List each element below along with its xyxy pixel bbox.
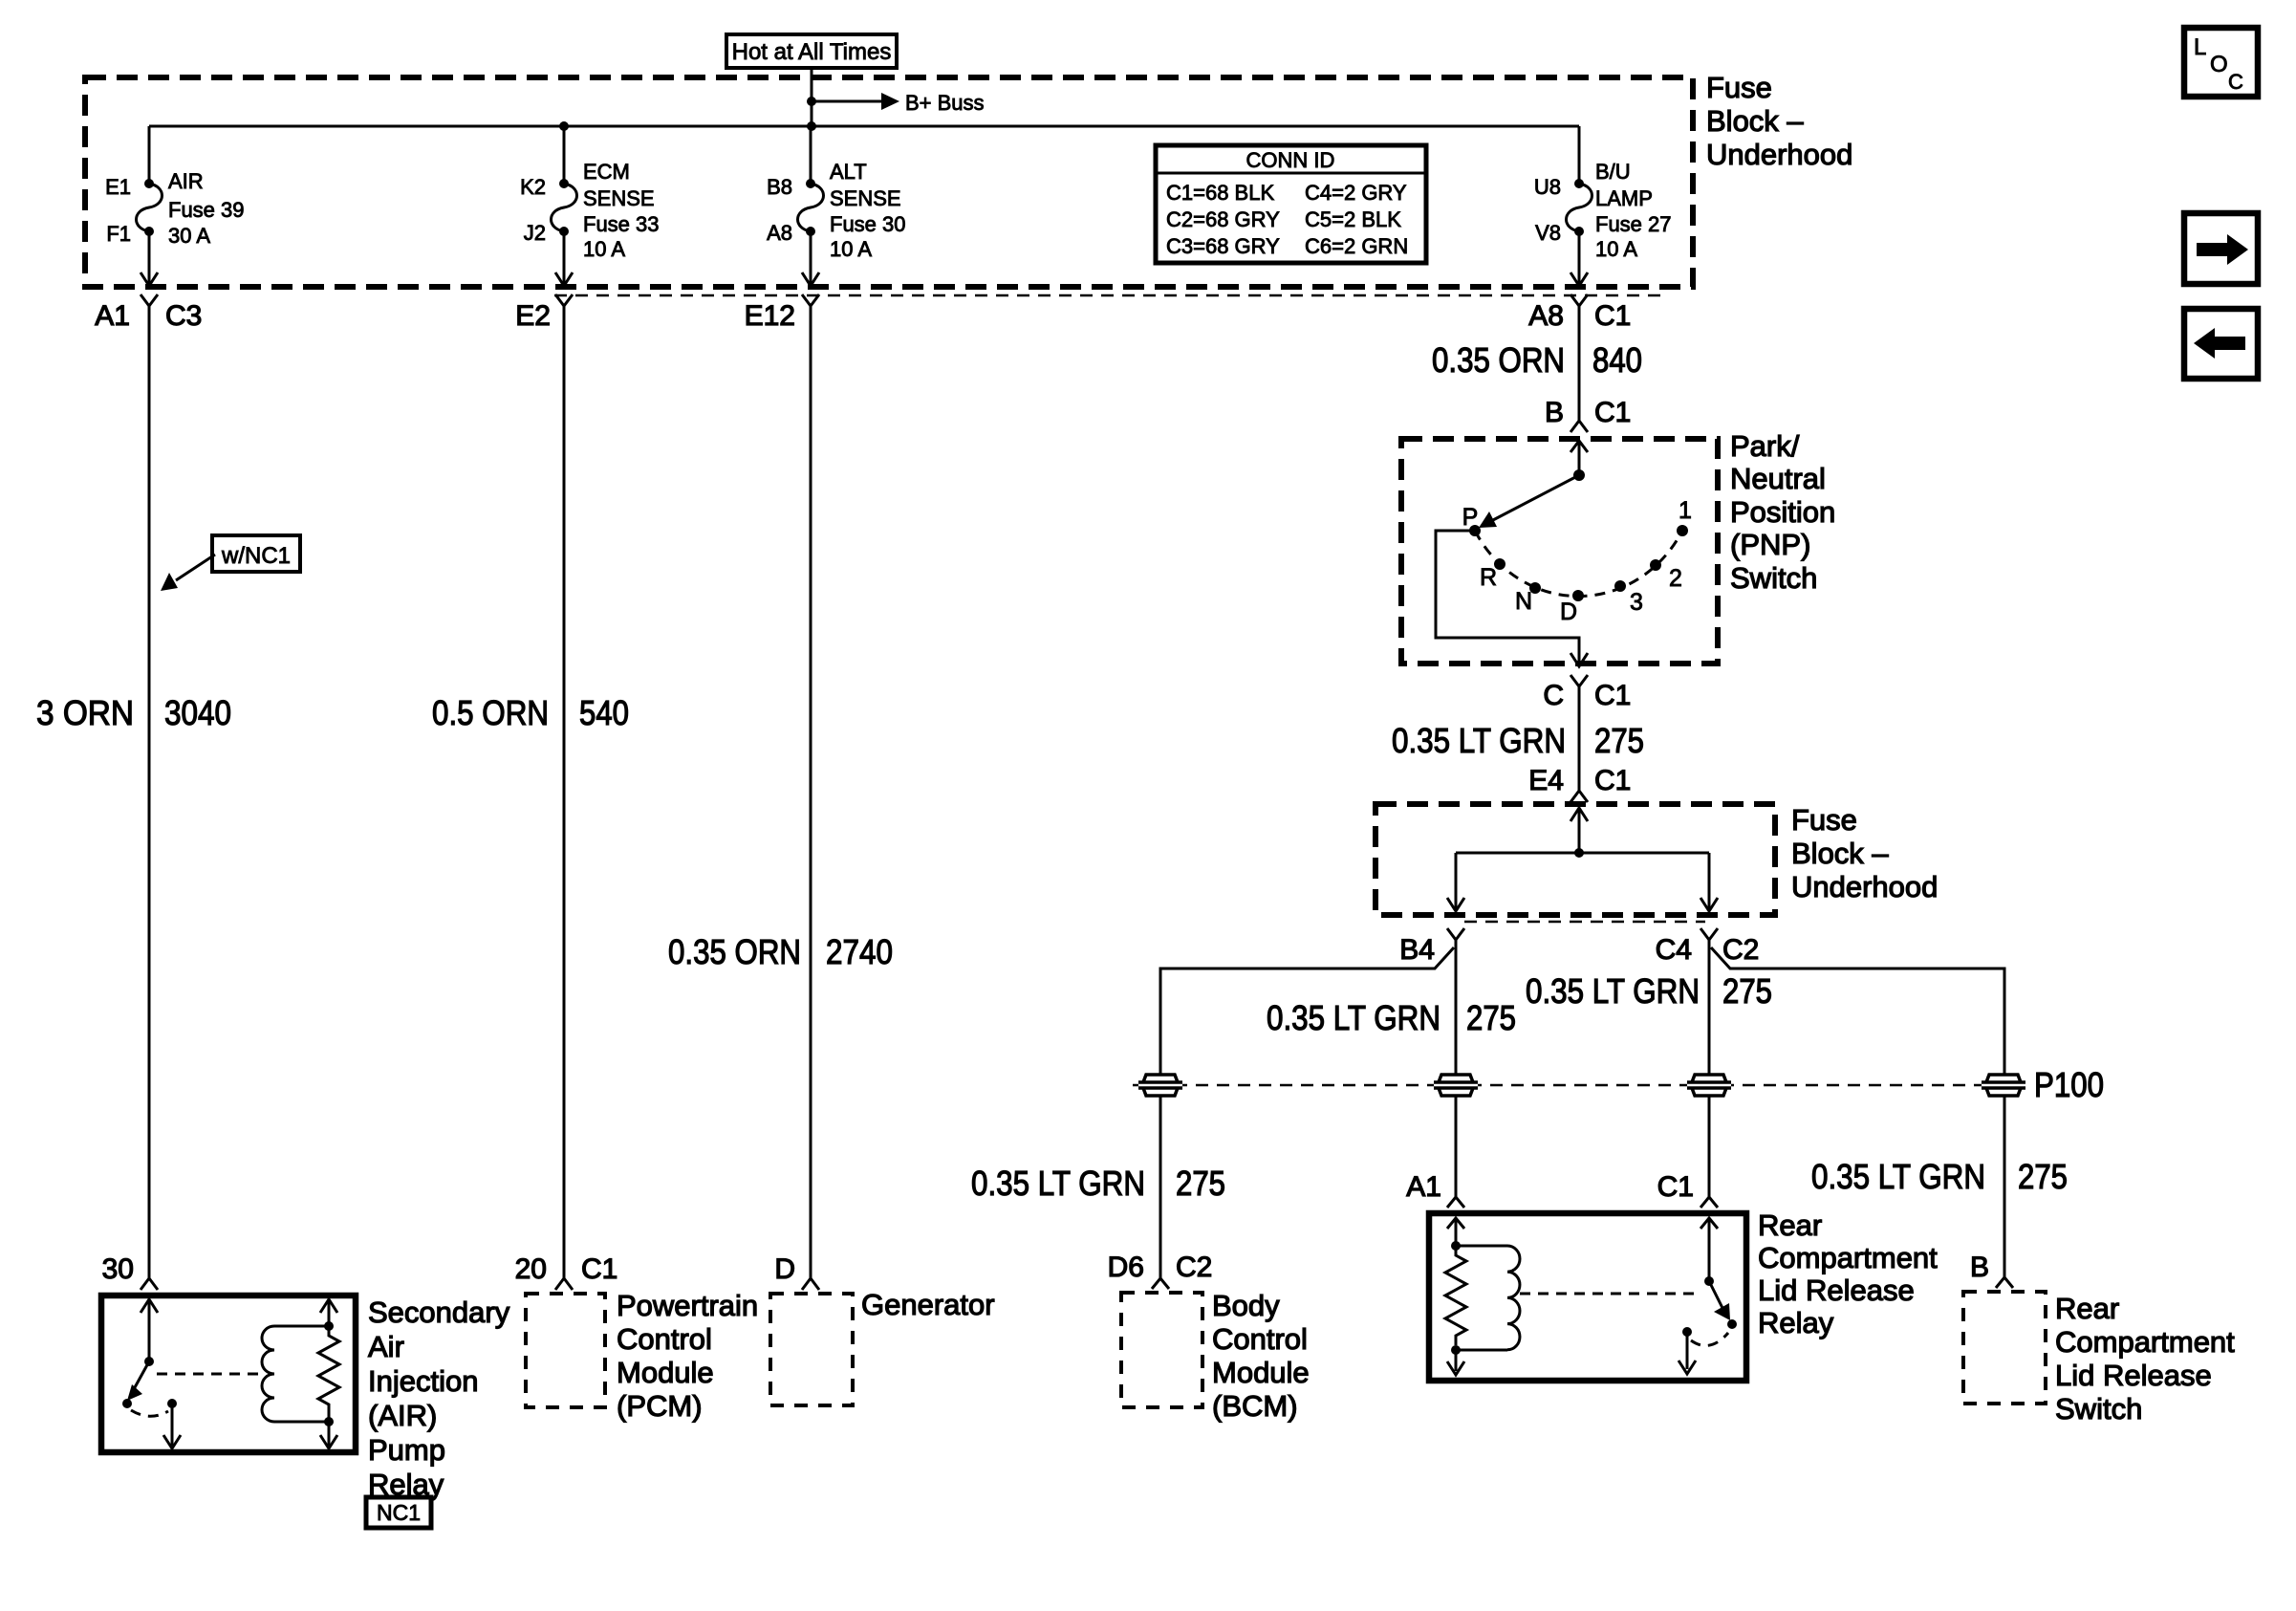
svg-text:(PNP): (PNP) <box>1730 528 1810 561</box>
svg-text:B+ Buss: B+ Buss <box>905 91 985 115</box>
svg-text:Hot at All Times: Hot at All Times <box>732 39 892 65</box>
svg-text:E1: E1 <box>105 175 131 199</box>
svg-text:Rear: Rear <box>1758 1208 1822 1242</box>
svg-text:K2: K2 <box>520 175 546 199</box>
svg-text:3: 3 <box>1630 589 1643 616</box>
svg-text:C1: C1 <box>581 1253 617 1285</box>
svg-text:A8: A8 <box>767 221 792 245</box>
svg-text:C4: C4 <box>1656 934 1692 966</box>
svg-text:3 ORN: 3 ORN <box>36 693 134 732</box>
svg-text:V8: V8 <box>1535 221 1561 245</box>
svg-text:2: 2 <box>1669 565 1682 592</box>
svg-text:1: 1 <box>1679 497 1692 524</box>
svg-text:Block –: Block – <box>1791 837 1889 870</box>
svg-text:Generator: Generator <box>861 1288 995 1321</box>
svg-text:A1: A1 <box>95 300 130 332</box>
svg-text:LAMP: LAMP <box>1595 186 1653 210</box>
svg-text:Lid Release: Lid Release <box>1758 1274 1915 1307</box>
svg-text:D: D <box>774 1253 795 1285</box>
svg-text:Secondary: Secondary <box>368 1295 510 1329</box>
svg-text:w/NC1: w/NC1 <box>221 543 291 569</box>
svg-text:Powertrain: Powertrain <box>617 1289 758 1322</box>
svg-text:B/U: B/U <box>1595 160 1631 184</box>
svg-text:0.5 ORN: 0.5 ORN <box>432 693 549 732</box>
svg-text:(AIR): (AIR) <box>368 1399 437 1432</box>
svg-text:J2: J2 <box>524 221 546 245</box>
svg-text:30 A: 30 A <box>168 224 210 248</box>
svg-text:C3: C3 <box>165 300 202 332</box>
svg-text:D6: D6 <box>1108 1252 1144 1283</box>
svg-text:CONN ID: CONN ID <box>1246 148 1335 172</box>
svg-text:10 A: 10 A <box>1595 237 1637 261</box>
svg-text:Fuse 33: Fuse 33 <box>583 212 660 236</box>
svg-text:Rear: Rear <box>2055 1292 2119 1325</box>
svg-text:NC1: NC1 <box>377 1500 421 1525</box>
svg-text:C: C <box>1543 680 1564 711</box>
svg-text:E12: E12 <box>745 300 795 332</box>
svg-text:275: 275 <box>2018 1157 2068 1196</box>
svg-text:ALT: ALT <box>830 160 867 184</box>
svg-text:N: N <box>1515 588 1532 615</box>
svg-text:(BCM): (BCM) <box>1212 1389 1298 1423</box>
svg-text:275: 275 <box>1722 971 1772 1011</box>
svg-text:10 A: 10 A <box>830 237 872 261</box>
svg-text:2740: 2740 <box>826 932 893 971</box>
svg-text:Body: Body <box>1212 1289 1280 1322</box>
svg-text:(PCM): (PCM) <box>617 1389 703 1423</box>
svg-text:Underhood: Underhood <box>1706 138 1852 171</box>
svg-text:0.35 LT GRN: 0.35 LT GRN <box>971 1164 1145 1203</box>
svg-text:C1: C1 <box>1594 680 1631 711</box>
svg-text:L: L <box>2194 34 2206 60</box>
svg-text:Fuse: Fuse <box>1706 71 1772 104</box>
svg-text:540: 540 <box>579 693 629 732</box>
svg-text:0.35 LT GRN: 0.35 LT GRN <box>1392 721 1566 760</box>
svg-text:Park/: Park/ <box>1730 429 1800 463</box>
svg-text:Switch: Switch <box>2055 1392 2142 1426</box>
svg-text:Switch: Switch <box>1730 561 1817 595</box>
svg-text:C: C <box>2228 70 2243 94</box>
svg-text:Neutral: Neutral <box>1730 462 1826 495</box>
svg-text:C2: C2 <box>1176 1252 1212 1283</box>
svg-text:0.35 LT GRN: 0.35 LT GRN <box>1267 998 1440 1037</box>
svg-text:ECM: ECM <box>583 160 630 184</box>
svg-text:C1: C1 <box>1594 765 1631 796</box>
svg-text:O: O <box>2210 52 2228 77</box>
svg-text:Pump: Pump <box>368 1433 445 1467</box>
svg-text:Position: Position <box>1730 495 1835 529</box>
svg-text:R: R <box>1480 564 1497 591</box>
svg-text:SENSE: SENSE <box>583 186 655 210</box>
svg-text:Module: Module <box>1212 1356 1310 1389</box>
svg-text:Underhood: Underhood <box>1791 870 1938 903</box>
svg-text:3040: 3040 <box>164 693 231 732</box>
svg-text:Injection: Injection <box>368 1364 478 1398</box>
svg-text:Module: Module <box>617 1356 714 1389</box>
svg-text:C2=68 GRY: C2=68 GRY <box>1166 207 1280 231</box>
svg-text:C2: C2 <box>1722 934 1759 966</box>
svg-text:30: 30 <box>102 1253 134 1285</box>
svg-text:C1: C1 <box>1594 300 1631 332</box>
svg-text:840: 840 <box>1592 340 1642 380</box>
svg-text:Fuse 39: Fuse 39 <box>168 198 245 222</box>
svg-text:SENSE: SENSE <box>830 186 901 210</box>
svg-text:Fuse 27: Fuse 27 <box>1595 212 1672 236</box>
svg-text:Relay: Relay <box>1758 1306 1834 1339</box>
svg-text:20: 20 <box>515 1253 547 1285</box>
svg-text:Lid Release: Lid Release <box>2055 1359 2212 1392</box>
svg-text:Fuse 30: Fuse 30 <box>830 212 906 236</box>
svg-text:D: D <box>1560 599 1577 625</box>
svg-text:Block –: Block – <box>1706 104 1804 138</box>
svg-text:U8: U8 <box>1534 175 1561 199</box>
svg-text:A8: A8 <box>1528 300 1564 332</box>
svg-text:B: B <box>1970 1252 1989 1283</box>
svg-text:0.35 LT GRN: 0.35 LT GRN <box>1811 1157 1985 1196</box>
svg-text:275: 275 <box>1176 1164 1225 1203</box>
svg-text:B: B <box>1545 397 1564 428</box>
svg-text:C1: C1 <box>1594 397 1631 428</box>
svg-text:0.35 ORN: 0.35 ORN <box>668 932 801 971</box>
svg-text:E2: E2 <box>515 300 551 332</box>
svg-text:275: 275 <box>1466 998 1516 1037</box>
svg-text:Compartment: Compartment <box>1758 1241 1938 1274</box>
svg-text:Control: Control <box>617 1322 712 1356</box>
svg-text:P: P <box>1462 504 1479 531</box>
svg-text:0.35 ORN: 0.35 ORN <box>1432 340 1565 380</box>
svg-text:Fuse: Fuse <box>1791 803 1857 837</box>
svg-text:B4: B4 <box>1399 934 1435 966</box>
svg-text:0.35 LT GRN: 0.35 LT GRN <box>1526 971 1700 1011</box>
svg-text:P100: P100 <box>2034 1065 2104 1104</box>
svg-text:C4=2 GRY: C4=2 GRY <box>1305 181 1407 205</box>
svg-text:B8: B8 <box>767 175 792 199</box>
svg-text:C5=2 BLK: C5=2 BLK <box>1305 207 1401 231</box>
svg-text:Air: Air <box>368 1330 404 1363</box>
svg-text:C3=68 GRY: C3=68 GRY <box>1166 234 1280 258</box>
svg-text:275: 275 <box>1594 721 1644 760</box>
svg-text:C1: C1 <box>1657 1171 1694 1203</box>
svg-text:AIR: AIR <box>168 169 204 193</box>
svg-text:A1: A1 <box>1406 1171 1441 1203</box>
svg-text:C1=68 BLK: C1=68 BLK <box>1166 181 1274 205</box>
svg-text:F1: F1 <box>106 222 131 246</box>
svg-text:10 A: 10 A <box>583 237 625 261</box>
svg-text:Control: Control <box>1212 1322 1308 1356</box>
svg-text:Compartment: Compartment <box>2055 1325 2235 1359</box>
svg-text:E4: E4 <box>1528 765 1564 796</box>
svg-text:C6=2 GRN: C6=2 GRN <box>1305 234 1408 258</box>
